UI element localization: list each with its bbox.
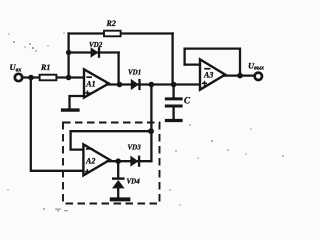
resistor R1 [40, 63, 57, 80]
wire A2 feedback loop to inverting input [71, 131, 152, 149]
ground at VD4 [110, 197, 131, 201]
node A3 feedback junction [237, 73, 243, 79]
diode VD1 [128, 69, 141, 91]
wire input branch down to A2 noninverting input [31, 78, 84, 171]
op-amp A2 [83, 144, 109, 175]
wire R2 left vertical [67, 34, 69, 78]
wire A3 output [224, 74, 255, 76]
wire A3 feedback loop [185, 49, 240, 76]
svg-text:A1: A1 [85, 79, 95, 88]
diode VD2 [89, 41, 103, 58]
svg-text:VD4: VD4 [127, 178, 141, 186]
wire input rail [23, 76, 85, 78]
svg-text:R1: R1 [40, 63, 50, 72]
svg-text:VD2: VD2 [89, 41, 103, 49]
node R2 feedback / C junction [171, 82, 177, 88]
op-amp A1 [84, 69, 109, 97]
svg-text:A2: A2 [85, 157, 95, 166]
node VD2 tap [66, 50, 71, 55]
input terminal Uvx [10, 62, 23, 81]
output terminal Uvyx [248, 60, 264, 80]
svg-text:Uвых: Uвых [248, 60, 264, 71]
ground at C [165, 119, 183, 122]
node A2 feedback tap [148, 128, 154, 134]
wire VD4 branch down [117, 161, 119, 177]
svg-text:VD1: VD1 [128, 69, 141, 77]
wire VD2 down to A1 output node [117, 53, 119, 85]
wire A1 output rail to A3 noninverting input [107, 83, 201, 85]
ground at A1 [61, 108, 80, 111]
svg-text:Uвх: Uвх [10, 62, 22, 73]
node VD1 cathode / A2 branch [149, 82, 155, 88]
wire VD2 branch [69, 51, 119, 53]
svg-text:A3: A3 [203, 71, 213, 80]
wire R2 top rail [69, 32, 173, 34]
wire A1 noninverting input to ground [70, 96, 85, 109]
diode VD3 [128, 144, 142, 167]
node A1 inverting input [66, 75, 72, 81]
node A1 output / VD2 junction [117, 82, 123, 88]
wire down to A2 feedback network [150, 85, 152, 162]
svg-text:C: C [184, 96, 191, 106]
wire A2 output [108, 160, 152, 162]
node A2 output [115, 158, 121, 164]
svg-text:R2: R2 [106, 19, 116, 28]
wire A3 inverting input [185, 63, 200, 65]
dashed enclosure box [63, 123, 160, 204]
op-amp A3 [200, 59, 225, 89]
svg-text:VD3: VD3 [128, 144, 142, 152]
capacitor C [165, 85, 191, 120]
diode VD4 [112, 178, 140, 198]
resistor R2 [104, 19, 121, 37]
wire R2 right vertical [171, 34, 173, 85]
node input branch [28, 75, 34, 81]
